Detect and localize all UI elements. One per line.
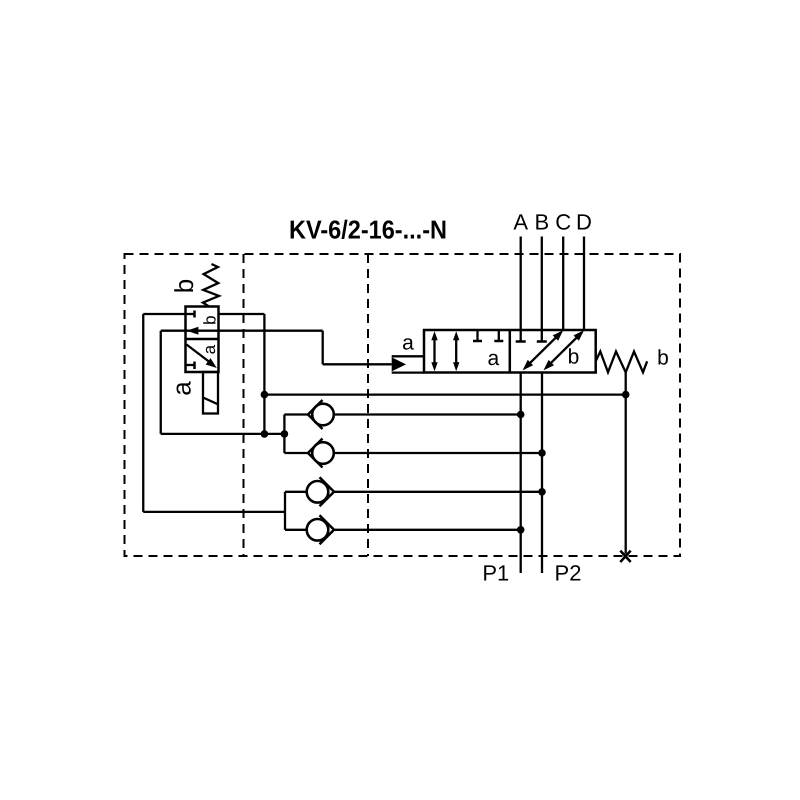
svg-text:b: b <box>201 315 220 324</box>
svg-text:B: B <box>534 210 549 235</box>
svg-text:P1: P1 <box>482 561 509 586</box>
svg-text:C: C <box>555 210 571 235</box>
svg-text:a: a <box>402 332 414 355</box>
svg-text:A: A <box>513 210 528 235</box>
svg-text:a: a <box>167 381 197 396</box>
svg-text:b: b <box>568 346 580 369</box>
svg-text:a: a <box>488 347 500 370</box>
svg-text:D: D <box>576 210 592 235</box>
svg-text:P2: P2 <box>555 561 582 586</box>
svg-text:KV-6/2-16-...-N: KV-6/2-16-...-N <box>289 214 447 244</box>
svg-text:b: b <box>657 347 669 370</box>
svg-text:b: b <box>169 279 199 293</box>
svg-text:a: a <box>200 344 219 354</box>
